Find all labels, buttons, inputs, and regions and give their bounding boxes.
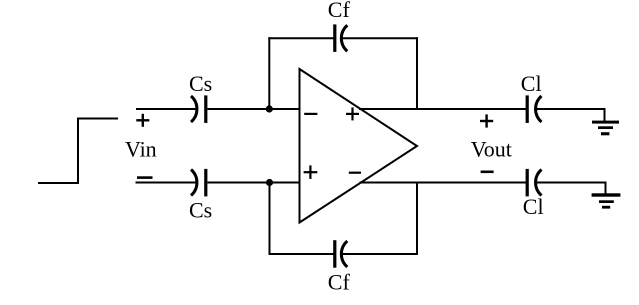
svg-text:Cl: Cl <box>523 194 544 219</box>
op-amp U1 triangle <box>300 69 418 223</box>
op-amp output "+" marker (top-right inside) <box>346 107 359 120</box>
ground (bottom) <box>592 193 621 208</box>
wire Cs to summing node to op-amp (bottom) <box>207 182 300 184</box>
capacitor Cl (top) <box>526 95 542 123</box>
wire Cs to summing node to op-amp (top) <box>207 108 300 110</box>
wire feedback top-left vertical <box>268 37 270 109</box>
node A junction dot (top input node) <box>266 105 273 112</box>
wire feedback bottom horizontal right <box>342 253 418 255</box>
op-amp input "+" marker (bottom-left inside) <box>304 165 318 179</box>
node Vin+ "+" marker <box>136 114 149 127</box>
svg-text:Vin: Vin <box>125 137 157 162</box>
wire Cl to ground (top) <box>536 109 605 122</box>
wire Cl to ground (bottom) <box>536 183 606 194</box>
capacitor Cf (top) <box>333 24 347 52</box>
node Vin- "&#8722;" marker <box>137 176 153 179</box>
wire bottom input to Cs <box>136 182 198 184</box>
wire top output <box>359 108 526 110</box>
wire top input to Cs <box>136 108 197 110</box>
svg-text:Vout: Vout <box>471 136 512 161</box>
capacitor Cs (bottom) <box>191 169 207 197</box>
node Vout- "&#8722;" marker <box>481 171 494 174</box>
svg-text:Cl: Cl <box>521 71 542 96</box>
input step waveform <box>38 119 118 184</box>
wire bottom output <box>360 182 527 184</box>
op-amp input "&#8722;" marker (top-left inside) <box>304 113 317 115</box>
wire feedback top-right vertical <box>416 37 418 109</box>
svg-text:Cs: Cs <box>189 71 212 96</box>
wire feedback bottom horizontal left <box>269 253 334 255</box>
ground (top) <box>592 121 619 136</box>
svg-text:Cf: Cf <box>328 270 351 295</box>
wire feedback bottom-right vertical <box>416 183 418 256</box>
op-amp output "&#8722;" marker (bottom-right inside) <box>349 172 361 174</box>
capacitor Cs (top) <box>191 95 207 123</box>
capacitor Cl (bottom) <box>526 169 542 197</box>
wire feedback top horizontal left <box>268 37 333 39</box>
svg-text:Cf: Cf <box>328 0 351 22</box>
capacitor Cf (bottom) <box>333 240 347 268</box>
wire feedback bottom-left vertical <box>269 183 271 256</box>
wire feedback top horizontal right <box>342 37 418 39</box>
node Vout+ "+" marker <box>480 114 493 127</box>
node B junction dot (bottom input node) <box>266 179 273 186</box>
svg-text:Cs: Cs <box>189 198 212 223</box>
